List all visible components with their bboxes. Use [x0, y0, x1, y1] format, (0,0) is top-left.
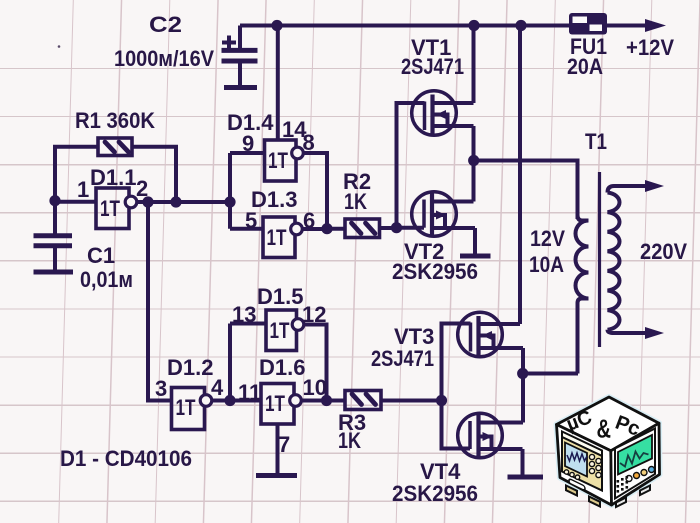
wire VT1 source to rail — [472, 26, 476, 104]
node B VT3/VT4 junction — [517, 368, 528, 379]
wire arrow to +12V — [645, 19, 666, 32]
wire arrow 220V top — [645, 180, 664, 192]
wire VT2 source down — [473, 228, 477, 254]
wire D1.2 output — [212, 399, 230, 403]
svg-text:4: 4 — [211, 375, 224, 400]
wire D1.5 input — [230, 322, 266, 326]
wire VT1 drain to node A — [472, 126, 476, 161]
capacitor C1 — [34, 201, 73, 270]
wire gate bus up to VT3 — [442, 324, 471, 401]
wire secondary bottom lead — [608, 330, 647, 333]
svg-text:2SJ471: 2SJ471 — [371, 346, 434, 371]
logo right scope buttons — [626, 467, 655, 482]
inverter D1.2 — [172, 388, 212, 430]
wire D1.1 output — [137, 200, 230, 204]
wire D1.6 output — [302, 399, 346, 403]
logo left scope body — [562, 432, 602, 491]
wire R1 left lead — [55, 147, 98, 200]
transistor VT2 2SK2956 (N-ch) — [412, 192, 475, 237]
svg-text:12V: 12V — [530, 226, 565, 251]
svg-text:C1: C1 — [87, 243, 115, 268]
wire secondary top lead — [608, 186, 647, 193]
ground bar D1.6 — [256, 473, 297, 478]
wire D1.3 input — [230, 227, 263, 231]
svg-text:1Т: 1Т — [270, 318, 290, 343]
wire D1.1 input — [55, 200, 96, 204]
wire +12V rail — [240, 24, 646, 28]
node to D1.2 — [142, 196, 153, 207]
inverter D1.4 — [265, 140, 304, 181]
svg-text:220V: 220V — [640, 239, 687, 264]
svg-text:2SJ471: 2SJ471 — [401, 54, 464, 79]
svg-text:1Т: 1Т — [100, 196, 120, 221]
wire D1.6 input — [230, 399, 261, 403]
svg-text:1: 1 — [77, 177, 89, 202]
logo right scope body — [615, 429, 655, 499]
wire VT2 drain to node A — [472, 161, 476, 202]
transistor VT1 2SJ471 (P-ch) — [412, 91, 474, 136]
wire pin 14 from rail — [276, 26, 280, 141]
svg-text:C2: C2 — [149, 12, 182, 37]
node D1.6 output / R3 — [321, 395, 332, 406]
wire bus to R2 — [327, 227, 345, 231]
svg-text:0,01м: 0,01м — [80, 267, 133, 292]
logo right scope keypad — [617, 476, 629, 493]
svg-text:1Т: 1Т — [265, 391, 285, 416]
logo left scope slot — [569, 479, 585, 491]
wire R3 right to gate bus — [381, 399, 442, 403]
inverter D1.1 — [96, 188, 137, 229]
wire gate lead VT2 — [397, 226, 425, 230]
node R1 right — [170, 196, 181, 207]
svg-text:7: 7 — [278, 432, 290, 457]
resistor R3 — [345, 391, 381, 410]
capacitor C2 — [222, 26, 258, 86]
wire pin 7 ground stem — [276, 424, 280, 473]
resistor R2 — [345, 219, 380, 238]
svg-text:5: 5 — [245, 208, 257, 233]
node gate bus VT3/VT4 — [436, 395, 447, 406]
wire VT3 source to +12V rail — [518, 26, 522, 325]
logo text µC & Pc — [563, 406, 642, 443]
wire D1.5 output — [304, 325, 327, 401]
wire D1.4 output — [304, 153, 328, 229]
wire node A to primary top — [474, 161, 578, 220]
svg-text:D1.6: D1.6 — [259, 355, 305, 380]
logo left scope waveform — [567, 453, 587, 461]
logo left scope feet — [566, 486, 600, 507]
wire gate bus up to VT1 — [397, 103, 425, 228]
svg-text:D1.2: D1.2 — [167, 355, 213, 380]
svg-text:13: 13 — [232, 302, 256, 327]
svg-text:9: 9 — [242, 131, 254, 156]
svg-text:10A: 10A — [529, 252, 564, 277]
transformer T1 secondary winding — [608, 193, 620, 330]
svg-text:T1: T1 — [585, 129, 607, 154]
wire feedback to D1.2 input — [148, 202, 172, 401]
resistor R1 — [98, 138, 132, 156]
wire D1.4 input — [230, 151, 265, 155]
node outputs bus — [321, 223, 332, 234]
node gate bus VT1/VT2 — [391, 222, 402, 233]
svg-text:R1 360K: R1 360K — [75, 108, 155, 133]
node D1.1 input — [49, 195, 60, 206]
node D1.4/D1.3 input bus — [224, 196, 235, 207]
transformer T1 primary winding — [576, 215, 589, 374]
svg-text:1Т: 1Т — [176, 395, 196, 420]
logo µC & Pc cube — [557, 397, 660, 505]
transistor VT4 2SK2956 (N-ch) — [458, 413, 523, 458]
node A VT1/VT2 junction — [468, 155, 479, 166]
wire VT4 source down — [521, 449, 525, 475]
svg-text:&: & — [597, 414, 612, 444]
wire VT3 drain to node B — [521, 348, 525, 374]
svg-text:D1.3: D1.3 — [251, 187, 297, 212]
wire input bus 2 — [228, 324, 232, 401]
node junction VT1 branch — [468, 20, 479, 31]
ground bar of C2 — [224, 85, 257, 90]
ground bar VT2 — [460, 254, 491, 259]
logo right scope waveform — [620, 452, 649, 467]
svg-text:1K: 1K — [338, 428, 361, 453]
transformer T1 core — [598, 172, 601, 347]
svg-text:1Т: 1Т — [267, 225, 287, 250]
wire arrow 220V bottom — [645, 327, 664, 339]
inverter D1.5 — [266, 310, 304, 351]
svg-text:2SK2956: 2SK2956 — [392, 259, 478, 284]
svg-text:11: 11 — [238, 380, 261, 405]
svg-text:D1.5: D1.5 — [257, 284, 303, 309]
wire D1.3 output — [303, 227, 328, 231]
wire gate bus down to VT4 — [442, 401, 471, 449]
ground bar of C1 — [34, 270, 74, 275]
wire input bus — [228, 153, 232, 229]
logo left scope knobs — [564, 454, 601, 479]
ground bar VT4 — [508, 475, 544, 480]
svg-text:1K: 1K — [344, 189, 367, 214]
node junction C2/pin14 — [271, 20, 282, 31]
svg-text:3: 3 — [155, 376, 167, 401]
fuse FU1 — [569, 13, 607, 35]
wire R2 to gate bus — [380, 226, 397, 230]
svg-text:+12V: +12V — [626, 35, 674, 60]
node junction VT3 branch — [515, 20, 526, 31]
wire R1 right lead — [132, 147, 176, 202]
logo right scope feet — [616, 486, 650, 508]
svg-text:20A: 20A — [567, 54, 603, 79]
wire VT4 drain to node B — [521, 374, 525, 423]
inverter D1.6 — [261, 384, 301, 425]
svg-text:1000м/16V: 1000м/16V — [114, 46, 214, 71]
inverter D1.3 — [263, 217, 302, 258]
wire node B to primary bottom — [523, 372, 578, 376]
svg-text:2SK2956: 2SK2956 — [392, 481, 478, 506]
svg-text:D1 - CD40106: D1 - CD40106 — [60, 446, 192, 471]
stray ink speck — [58, 45, 61, 48]
transistor VT3 2SJ471 (P-ch) — [458, 312, 523, 357]
svg-text:1Т: 1Т — [268, 148, 288, 173]
node D1.5/D1.6 input bus — [224, 395, 235, 406]
